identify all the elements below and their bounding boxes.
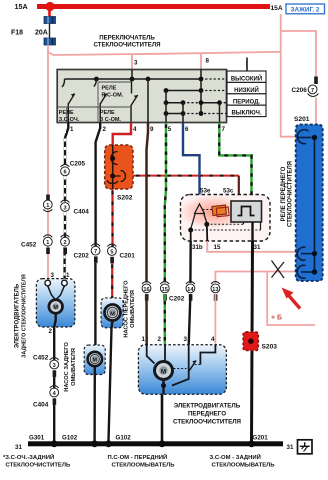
wire front pump to ground [109,321,113,442]
svg-text:3: 3 [134,60,138,67]
label НАСОС ЗАДНЕГО ОМЫВАТЕЛЯ vertical [64,342,77,392]
svg-text:8: 8 [206,58,210,65]
svg-text:C202: C202 [169,296,185,303]
wire S201 lower contact to pin 13 (pink, cut) [215,272,301,284]
svg-text:F18: F18 [11,30,23,37]
svg-text:15A: 15A [15,2,28,11]
svg-text:РЕЛЕ: РЕЛЕ [100,110,115,116]
ground labels [15,435,294,451]
svg-text:31: 31 [287,444,294,451]
matrix row НИЗКИЙ [166,90,201,92]
node pin9/bus [146,77,151,82]
front washer pump motor [105,305,121,321]
wire pin7 green to relay 53c side [219,123,251,202]
wire C201-5 to front washer pump (red/black) [111,263,113,298]
connector row C202 pins 16,15,14,13 [142,282,220,303]
svg-text:G102: G102 [62,435,78,442]
front wiper motor symbol [155,362,173,380]
wire pin9 maroon down to C202-16 [147,123,149,283]
svg-text:13: 13 [212,287,218,293]
label НАСОС ПЕРЕДНЕГО ОМЫВАТЕЛЯ vertical [124,280,136,338]
switch position labels [227,71,266,117]
svg-text:53е: 53е [200,188,211,195]
svg-text:*З.С-ОЧ.-ЗАДНИЙ: *З.С-ОЧ.-ЗАДНИЙ [3,453,54,461]
junction on bus [45,2,54,11]
connector C404 pin 3 [61,200,90,215]
svg-text:ПЕРЕДНЕГО: ПЕРЕДНЕГО [188,411,226,418]
fuse F18 20A [11,9,56,45]
matrix column pin5 [165,91,167,123]
svg-text:15A: 15A [271,5,283,12]
connector C404 pin 4 [33,386,59,409]
svg-text:6: 6 [63,170,66,176]
relay contact triangle [195,204,205,214]
matrix row ПЕРИОД [166,102,183,104]
svg-text:3: 3 [53,363,56,369]
svg-text:7: 7 [311,88,314,94]
svg-text:4: 4 [211,336,215,343]
wire maroon into pulse box [238,176,240,202]
rear washer pump motor [88,352,102,366]
pulse generator box [231,201,262,222]
svg-text:+ Б: + Б [271,314,282,321]
svg-text:1: 1 [70,126,74,133]
stub above switch box [246,58,248,71]
svg-text:НАСОС ПЕРЕДНЕГО: НАСОС ПЕРЕДНЕГО [124,280,130,338]
svg-text:СТЕКЛООЧИСТИТЕЛЯ: СТЕКЛООЧИСТИТЕЛЯ [173,419,242,426]
svg-text:6: 6 [185,126,189,133]
switch title [94,34,161,48]
connector C202 pin 7 [74,244,101,263]
wire pin1 black/white to rear wiper motor [65,123,69,281]
matrix column pin6 [182,103,184,123]
svg-text:53c: 53c [223,188,234,195]
wire C202-7 to rear washer pump [94,263,96,345]
relay compartment partitions [58,82,132,123]
wire 13 to motor pin4 (pink) [214,294,216,346]
power bus 15A ignition [15,2,283,12]
svg-text:7: 7 [222,126,226,133]
svg-text:7: 7 [94,249,97,255]
connector C452 pin 3 [33,355,59,377]
svg-text:G201: G201 [253,435,269,442]
svg-text:2: 2 [103,126,107,133]
svg-text:ЗАДНЕГО СТЕКЛООЧИСТИТЕЛЯ: ЗАДНЕГО СТЕКЛООЧИСТИТЕЛЯ [22,274,28,358]
wire S202 to relay (red/black dashed horizontal) [133,175,239,177]
front wiper motor box [138,345,226,395]
rear wiper motor box [36,279,75,327]
svg-text:5: 5 [110,249,113,255]
connector C452 pins 1,2 [21,235,69,254]
legend [3,453,275,469]
svg-text:C201: C201 [120,253,136,260]
svg-text:П.С-ОМ - ПЕРЕДНИЙ: П.С-ОМ - ПЕРЕДНИЙ [108,453,168,461]
pin labels under switch box [70,126,226,133]
svg-text:S201: S201 [294,116,310,123]
svg-text:S202: S202 [117,195,133,202]
connector C205 pin 6 [61,161,86,176]
svg-text:СТЕКЛООЧИСТИТЕЛЬ: СТЕКЛООЧИСТИТЕЛЬ [6,462,71,468]
svg-text:G102: G102 [116,435,132,442]
svg-text:3: 3 [51,272,55,279]
svg-text:РЕЛЕ ПЕРЕДНЕГО: РЕЛЕ ПЕРЕДНЕГО [281,166,287,221]
annotation arrow [287,294,300,309]
wire pink stub lower right [267,272,315,326]
wire 15 pink to S201 [207,241,301,252]
svg-text:15: 15 [214,244,221,251]
relay coil resistor [212,205,229,217]
wire pin6 blue to relay 53e [183,123,200,204]
svg-text:РЕЛЕ: РЕЛЕ [102,86,117,92]
svg-text:СТЕКЛООМЫВАТЕЛЬ: СТЕКЛООМЫВАТЕЛЬ [212,462,276,468]
wire ignition feed right side down to S201 [281,14,308,137]
wire branch to C206 [281,31,316,77]
matrix column pin7 [219,103,221,123]
rear wiper motor symbol [49,300,63,314]
svg-text:ОМЫВАТЕЛЯ: ОМЫВАТЕЛЯ [130,290,136,328]
svg-text:20A: 20A [35,30,48,37]
ground nodes [51,440,58,447]
svg-text:НИЗКИЙ: НИЗКИЙ [234,86,259,94]
svg-text:2: 2 [49,328,53,335]
wire 16 to motor pin1 [145,294,148,346]
relay contact legs [191,214,196,230]
svg-text:1: 1 [66,272,70,279]
svg-text:9: 9 [150,126,154,133]
svg-text:16: 16 [143,287,149,293]
wiper breaker S201 [294,116,323,281]
svg-text:З.С-ОМ - ЗАДНИЙ: З.С-ОМ - ЗАДНИЙ [210,453,261,461]
svg-text:РЕЛЕ: РЕЛЕ [59,110,74,116]
svg-text:3: 3 [184,336,188,343]
svg-text:2: 2 [158,336,162,343]
svg-text:ЭЛЕКТРОДВИГАТЕЛЬ: ЭЛЕКТРОДВИГАТЕЛЬ [174,403,241,410]
switch contact relay З.С-ОЧ (pin1) [62,79,75,123]
svg-text:M: M [93,358,98,364]
svg-text:G301: G301 [29,435,45,442]
label ЭЛЕКТРОДВИГАТЕЛЬ ПЕРЕДНЕГО СТЕКЛООЧИСТИТЕЛЯ [173,403,242,426]
svg-text:31b: 31b [192,244,203,251]
switch contact relay З.С-ОМ (pin4) [131,79,138,123]
svg-text:ПЕРЕКЛЮЧАТЕЛЬ: ПЕРЕКЛЮЧАТЕЛЬ [99,34,155,41]
front wiper relay box [179,195,270,242]
splice S203 [243,332,277,351]
wire rear pump to ground [93,366,96,441]
svg-text:15: 15 [162,287,168,293]
wire 15 inside [206,224,209,241]
svg-text:З С-ОМ.: З С-ОМ. [100,117,122,123]
main bus inside switch (ВЫСОКИЙ row) [65,78,202,80]
svg-text:ЭЛЕКТРОДВИГАТЕЛЬ: ЭЛЕКТРОДВИГАТЕЛЬ [15,283,21,348]
svg-text:СТЕКЛООЧИСТИТЕЛЯ: СТЕКЛООЧИСТИТЕЛЯ [94,41,161,48]
svg-text:S203: S203 [262,344,278,351]
wire pin8 inside box [200,70,202,114]
svg-text:5: 5 [168,126,172,133]
svg-text:1: 1 [46,203,49,209]
svg-text:2: 2 [63,240,66,246]
svg-text:ВЫСОКИЙ: ВЫСОКИЙ [231,75,262,83]
wire fuse output feed (pink) [48,45,281,55]
svg-text:ОМЫВАТЕЛЯ: ОМЫВАТЕЛЯ [71,348,77,386]
rear motor terminals [45,280,51,286]
node pin3/bus [130,77,135,82]
svg-text:3: 3 [63,205,66,211]
label РЕЛЕ ПЕРЕДНЕГО СТЕКЛООЧИСТИТЕЛЯ vertical [281,161,293,227]
svg-text:СТЕКЛООМЫВАТЕЛЬ: СТЕКЛООМЫВАТЕЛЬ [112,462,176,468]
front washer pump box [101,298,123,328]
wire feed to pin 8 [200,53,202,70]
relay block S202 [105,145,133,202]
svg-text:C404: C404 [74,209,90,216]
node pin8 col top [199,77,204,82]
matrix column pin9 [147,79,149,123]
wire pin2 black down to C202 [96,123,101,247]
rear washer pump box [84,345,105,374]
svg-text:ВЫКЛЮЧ.: ВЫКЛЮЧ. [231,111,261,117]
svg-text:П.С-ОМ.: П.С-ОМ. [102,93,124,99]
ground symbol [298,440,313,454]
svg-text:C202: C202 [74,253,90,260]
wire pin4 red to S202 [113,123,131,146]
wire 14 to motor pin3 [189,294,191,346]
cut mark X [272,261,285,279]
node 15 [204,222,209,227]
wire 31b inside [190,230,192,241]
wire 31b down to C202-14 [189,241,192,283]
wiper switch box [57,70,226,123]
connector C206 pin 7 [292,77,319,138]
svg-text:З.С-ОЧ.: З.С-ОЧ. [59,117,80,123]
svg-text:C205: C205 [70,161,86,168]
motor pin labels [142,336,216,343]
label ЭЛЕКТРОДВИГАТЕЛЬ ЗАДНЕГО СТЕКЛООЧИСТИТЕЛЯ vertical [15,274,28,358]
node ЗАЖИГ 2 [286,4,325,14]
svg-text:31: 31 [254,244,261,251]
svg-text:14: 14 [187,287,194,293]
wire front motor ground to bus [161,395,164,442]
svg-text:C206: C206 [292,87,308,94]
wire S202 to C201 (red/black) [111,189,113,247]
matrix row ВЫКЛЮЧ [166,113,183,115]
wire rear motor to ground [54,313,56,360]
wire feed to pin 3 [131,54,133,70]
connector C201 pin 5 [107,244,135,263]
wire C404-4 to ground bus [53,405,55,442]
switch contact relay П.С-ОМ (pin2) [94,79,107,123]
wire pink drop to rear wiper circuit [47,51,49,280]
svg-text:C452: C452 [21,242,37,249]
wire pin5 green to C202-15 [165,123,166,283]
wire 31 down through S203 to ground [252,241,253,441]
connector C404 pin 1 (pink wire) [43,195,52,212]
svg-text:31: 31 [15,444,22,451]
node motor ground [161,383,166,388]
svg-text:C404: C404 [33,402,49,409]
svg-text:ЗАЖИГ. 2: ЗАЖИГ. 2 [291,6,320,13]
wire pin3 inside box [131,70,133,80]
svg-text:C452: C452 [33,355,49,362]
svg-text:4: 4 [133,126,137,133]
svg-text:M: M [110,311,115,317]
wire 31 inside relay [251,222,253,241]
node contact2/bus [94,77,99,82]
svg-text:СТЕКЛООЧИСТИТЕЛЯ: СТЕКЛООЧИСТИТЕЛЯ [287,161,293,227]
svg-text:M: M [161,368,166,375]
svg-text:ПЕРИОД.: ПЕРИОД. [233,99,260,105]
front wiper motor internals [147,345,216,395]
relay internal dashed links [191,210,261,231]
wire C452-3 to C404-4 [53,377,55,389]
wire 15 to motor pin2 (green) [164,294,166,346]
svg-text:M: M [53,305,58,311]
ground bus 31 [28,441,283,446]
svg-text:НАСОС ЗАДНЕГО: НАСОС ЗАДНЕГО [64,342,70,392]
svg-text:1: 1 [46,240,49,246]
svg-text:1: 1 [142,336,146,343]
node 31b [188,228,193,233]
